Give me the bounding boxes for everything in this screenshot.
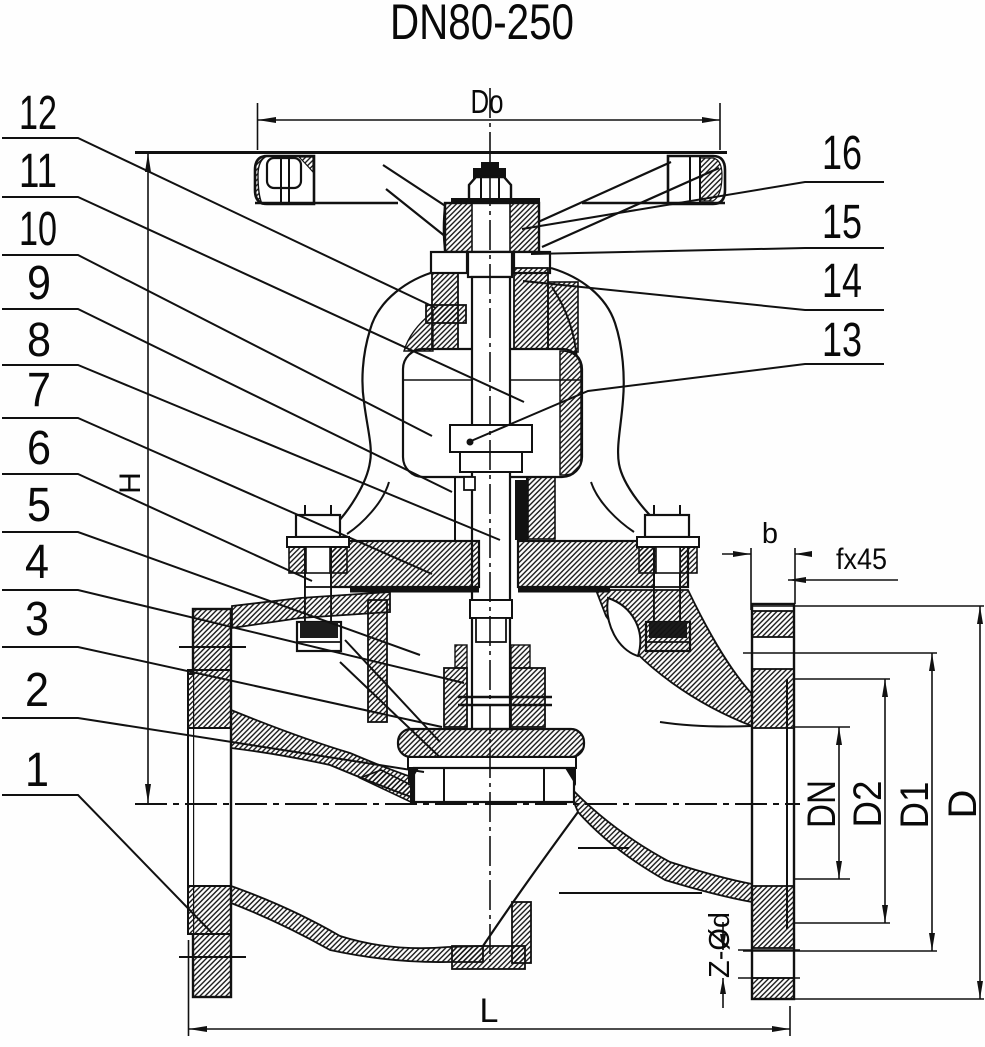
leader 12: [2, 138, 436, 308]
leader 7: [2, 418, 432, 574]
dim Do extension right: [719, 103, 721, 150]
black slot: [515, 480, 526, 540]
handwheel rim bottom lines: [255, 202, 398, 204]
svg-text:DN80-250: DN80-250: [390, 0, 574, 50]
leader 6: [2, 474, 312, 581]
leader 2: [2, 718, 424, 772]
handwheel hub: [445, 203, 539, 252]
stem nut: [469, 177, 511, 202]
bonnet outer profile left: [318, 271, 437, 542]
handwheel spokes right: [516, 162, 671, 232]
disc lower plate: [408, 757, 576, 768]
svg-text:12: 12: [19, 87, 57, 140]
leader 10: [2, 255, 432, 436]
dim D2 connectors: [794, 678, 890, 680]
dim b line: [722, 553, 751, 555]
leader 14: [523, 281, 884, 310]
svg-text:7: 7: [27, 364, 51, 417]
dim H line: [147, 153, 149, 803]
right flange hatch neck: [752, 669, 794, 728]
stem collar below flange: [470, 600, 512, 618]
dim L line: [189, 1028, 791, 1030]
seat column right: [512, 902, 531, 963]
seat left edge: [410, 770, 414, 803]
centerline horizontal: [135, 803, 800, 805]
dim D1 line: [931, 653, 933, 951]
svg-text:D1: D1: [893, 782, 937, 829]
leader 5: [2, 532, 420, 655]
leader 13: [471, 364, 884, 441]
svg-text:D: D: [941, 790, 985, 819]
svg-text:b: b: [762, 518, 778, 550]
bonnet flange left: [316, 541, 479, 587]
dim Do line: [258, 119, 721, 121]
dim D2 line: [884, 679, 886, 923]
dim L extensions: [188, 940, 190, 1036]
leader 9: [2, 309, 452, 492]
handwheel top line: [135, 151, 727, 154]
right flange hatch top: [752, 611, 794, 637]
disc: [398, 729, 584, 757]
svg-text:2: 2: [25, 664, 49, 717]
bonnet flange right: [518, 541, 688, 587]
leader 1: [2, 795, 212, 933]
yoke arm left vertical: [368, 600, 387, 722]
right flange outline: [752, 604, 794, 999]
yoke arm band left upper: [232, 592, 390, 628]
backseat bushing: [450, 425, 532, 452]
svg-text:9: 9: [27, 257, 51, 310]
svg-text:L: L: [480, 992, 499, 1030]
dim DN line: [838, 727, 840, 879]
bonnet chamber: [403, 349, 582, 477]
stem upper step: [468, 252, 512, 277]
bonnet outer profile right: [551, 268, 677, 542]
svg-text:1: 1: [25, 744, 49, 797]
leader 16: [522, 182, 884, 229]
svg-text:16: 16: [822, 127, 862, 180]
stem: [472, 277, 510, 729]
yoke arm band right to flange: [596, 590, 752, 726]
svg-text:13: 13: [822, 314, 862, 367]
svg-text:3: 3: [25, 593, 49, 646]
dim D1 connectors: [743, 652, 937, 654]
chamber inner line: [403, 379, 582, 381]
handwheel spokes left: [383, 165, 450, 209]
bonnet neck step curve: [552, 287, 577, 360]
bolt right: [637, 505, 699, 651]
split pin lines: [458, 696, 552, 699]
seat support wedge: [360, 770, 413, 803]
seat corner right: [565, 768, 576, 786]
packing right column: [514, 252, 550, 273]
dim Z-Od hole lines: [738, 949, 800, 951]
dim D connectors: [752, 605, 984, 607]
right yoke window: [607, 598, 640, 656]
svg-text:5: 5: [27, 479, 51, 532]
outlet bore top line: [660, 722, 752, 727]
disc nut left: [444, 668, 467, 727]
leader 4: [2, 590, 464, 683]
outlet inner lines: [578, 847, 629, 849]
svg-text:4: 4: [25, 536, 49, 589]
leader 8: [2, 365, 500, 540]
svg-text:10: 10: [19, 203, 57, 256]
svg-text:DN: DN: [800, 780, 844, 828]
dim f line: [788, 579, 898, 581]
left flange hatch lower: [188, 886, 231, 934]
svg-text:Do: Do: [471, 83, 504, 120]
chamber left wedge: [404, 312, 433, 351]
right flange hatch lower: [752, 886, 794, 948]
dim b extensions: [750, 548, 752, 610]
svg-text:15: 15: [822, 196, 862, 249]
left flange bolt hole ticks: [179, 646, 246, 648]
svg-text:11: 11: [19, 145, 57, 198]
svg-text:D2: D2: [846, 781, 890, 828]
dim D line: [979, 606, 981, 999]
leader 11: [2, 197, 524, 402]
bonnet neck right wall: [548, 282, 578, 352]
stem nut cap: [481, 162, 499, 169]
bonnet inner window curves: [347, 482, 389, 534]
stem guide line right: [526, 477, 528, 541]
handwheel rim left: [255, 156, 314, 204]
bottom step: [452, 946, 525, 969]
dim DN connectors: [794, 726, 850, 728]
handwheel rim right: [668, 156, 725, 204]
packing gland left: [431, 252, 467, 273]
svg-text:8: 8: [27, 314, 51, 367]
dim Z-Od arrows: [722, 922, 724, 950]
partition arc band: [566, 783, 752, 902]
left flange raised face: [188, 674, 193, 934]
leader 3: [2, 647, 442, 727]
chamber right wall band: [560, 351, 581, 475]
seat corner left: [408, 768, 419, 786]
leader 15: [531, 248, 884, 254]
bowl curve: [483, 812, 578, 946]
disc nut right: [511, 668, 545, 727]
right flange face line: [786, 679, 788, 929]
right flange hatch bottom: [752, 978, 794, 999]
svg-text:fx45: fx45: [836, 543, 887, 576]
stem guide line: [454, 477, 456, 541]
dim Do extension left: [257, 103, 259, 150]
centerline vertical: [489, 88, 491, 962]
svg-text:14: 14: [822, 255, 862, 308]
inlet top wall: [231, 710, 420, 800]
svg-text:6: 6: [27, 422, 51, 475]
seat ring: [414, 768, 574, 802]
inlet bottom wall: [231, 886, 483, 962]
left flange outline: [193, 609, 231, 997]
left flange hatch upper: [193, 609, 231, 670]
svg-text:H: H: [114, 472, 147, 494]
washer under nut: [451, 198, 540, 203]
yoke web lines left: [345, 640, 440, 742]
bolt left: [287, 505, 349, 651]
svg-text:Z-Ød: Z-Ød: [704, 912, 736, 978]
gasket lines: [350, 588, 479, 593]
